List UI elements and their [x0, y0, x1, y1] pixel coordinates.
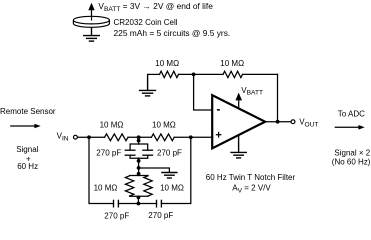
node: inverting input junction	[192, 73, 196, 77]
svg-text:270 pF: 270 pF	[96, 149, 121, 158]
wire feedback right drop to output	[277, 74, 279, 121]
resistor R4 10 Mohm	[151, 134, 174, 141]
resistor R5 10 Mohm (left of parallel pair)	[125, 176, 148, 197]
node plus input junction	[189, 135, 193, 139]
svg-text:Signal: Signal	[16, 145, 38, 154]
resistor R2 10 Mohm feedback	[194, 71, 278, 77]
node VIN junction	[87, 135, 91, 139]
wire C3 to center	[118, 203, 156, 205]
op-amp VBATT supply arrow	[235, 93, 242, 108]
terminal VIN	[74, 135, 78, 139]
wire VIN down left column	[89, 137, 114, 203]
svg-text:10 MΩ: 10 MΩ	[94, 184, 118, 193]
wire R4 to op-amp plus input	[174, 136, 212, 138]
svg-text:Remote Sensor: Remote Sensor	[0, 107, 56, 116]
battery BT1 CR2032 coin cell	[73, 16, 109, 27]
wire output	[265, 121, 290, 123]
capacitor C1 270 pF (left of parallel pair)	[125, 144, 138, 158]
capacitor C4 270 pF (series right)	[157, 200, 162, 208]
svg-text:10 MΩ: 10 MΩ	[220, 59, 244, 68]
wire inverting input	[194, 74, 213, 110]
node cap bracket top	[137, 139, 141, 143]
arrow to ADC	[335, 125, 364, 130]
wire R3 to R4	[128, 136, 151, 138]
wire resistor pair to bottom row	[137, 196, 139, 203]
capacitor C3 270 pF (series left)	[114, 200, 119, 208]
capacitor C2 270 pF (right of parallel pair)	[139, 144, 153, 158]
svg-text:Signal × 2: Signal × 2	[334, 148, 370, 157]
ground at R1	[139, 74, 156, 96]
svg-text:10 MΩ: 10 MΩ	[160, 184, 184, 193]
node output junction	[276, 120, 280, 124]
op-amp U1	[212, 95, 265, 148]
op-amp minus pin mark	[217, 109, 220, 111]
wire C4 to right column up to plus node	[161, 137, 190, 203]
op-amp ground	[230, 136, 247, 158]
wire to twin T ground	[139, 168, 170, 172]
wire bracket bottom to resistor pair	[138, 158, 140, 175]
battery V+ arrow	[88, 3, 94, 17]
svg-text:225 mAh = 5 circuits @ 9.5 yrs: 225 mAh = 5 circuits @ 9.5 yrs.	[114, 28, 231, 38]
resistor R6 10 Mohm (right of parallel pair)	[130, 176, 153, 196]
wire center node down	[138, 137, 140, 144]
svg-text:10 MΩ: 10 MΩ	[155, 59, 179, 68]
op-amp plus pin mark	[216, 132, 220, 137]
resistor R1 10 Mohm (inverting input to ground)	[148, 71, 194, 77]
terminal VOUT	[291, 120, 295, 124]
node bottom center	[137, 202, 141, 206]
svg-text:CR2032 Coin Cell: CR2032 Coin Cell	[114, 18, 178, 27]
svg-text:270 pF: 270 pF	[157, 149, 182, 158]
svg-text:To ADC: To ADC	[338, 109, 365, 118]
node resistor pair bottom	[137, 196, 141, 200]
svg-text:270 pF: 270 pF	[148, 211, 173, 220]
battery ground	[83, 27, 100, 41]
wire VIN to R3	[78, 136, 105, 138]
svg-text:270 pF: 270 pF	[104, 211, 129, 220]
resistor R3 10 Mohm	[105, 134, 129, 141]
twin T ground	[161, 173, 177, 179]
node twin T center top	[137, 135, 141, 139]
svg-text:60 Hz: 60 Hz	[17, 162, 38, 171]
svg-text:(No 60 Hz): (No 60 Hz)	[332, 157, 371, 166]
arrow remote sensor	[11, 124, 41, 129]
node cap bracket bottom	[137, 159, 141, 163]
node ground tee	[137, 166, 141, 170]
svg-text:60 Hz Twin T Notch Filter: 60 Hz Twin T Notch Filter	[206, 173, 296, 182]
svg-text:10 MΩ: 10 MΩ	[100, 121, 124, 130]
node resistor pair top	[137, 172, 141, 176]
svg-text:10 MΩ: 10 MΩ	[152, 121, 176, 130]
